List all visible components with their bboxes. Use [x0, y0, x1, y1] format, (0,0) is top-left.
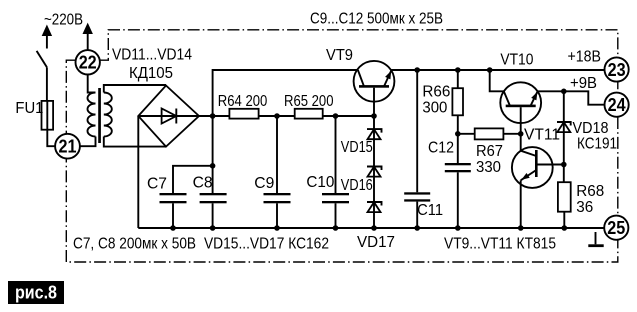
wire bridge plus to R64 — [199, 115, 229, 117]
capacitor C11 — [404, 70, 430, 228]
terminal 22 — [76, 50, 100, 74]
wire VT10 emitter to terminal 24 — [538, 91, 605, 104]
svg-text:КД105: КД105 — [129, 65, 173, 82]
zener chain wire — [373, 116, 375, 228]
mains arrow right — [83, 23, 93, 51]
capacitor C8 — [200, 193, 227, 203]
svg-text:VD18: VD18 — [573, 120, 609, 137]
svg-text:C7, C8 200мк x 50В: C7, C8 200мк x 50В — [73, 236, 196, 253]
wire R65 to VT9 base node — [323, 115, 374, 117]
zener diode VD15 — [367, 129, 382, 139]
svg-text:300: 300 — [422, 100, 447, 117]
wire bridge minus down to ground rail — [137, 116, 139, 228]
transistor VT10 — [490, 70, 541, 151]
module border (dash-dot) — [66, 30, 618, 262]
wire fuse to terminal 21 — [47, 130, 55, 147]
svg-text:КС191: КС191 — [577, 136, 617, 153]
svg-text:VD17: VD17 — [357, 234, 395, 251]
wire secondary top to bridge — [104, 85, 166, 93]
node R66 top — [455, 67, 461, 73]
terminal 23 — [605, 57, 629, 81]
resistor R65 — [295, 109, 323, 119]
resistor R66 — [452, 70, 463, 134]
capacitor C12 — [445, 134, 471, 228]
capacitor C10 — [322, 116, 349, 228]
svg-text:36: 36 — [576, 199, 593, 216]
svg-text:VD15...VD17 КС162: VD15...VD17 КС162 — [204, 236, 329, 253]
node C7 top link — [210, 163, 216, 169]
node R67/VT10 base — [518, 131, 524, 137]
ground rail wire — [138, 227, 604, 229]
svg-text:330: 330 — [476, 159, 501, 176]
transistor VT9 — [354, 61, 395, 116]
svg-text:R65 200: R65 200 — [284, 93, 334, 110]
svg-text:C8: C8 — [193, 175, 213, 192]
svg-text:21: 21 — [59, 137, 77, 157]
svg-text:R68: R68 — [576, 183, 604, 200]
node VD18 top — [561, 89, 567, 95]
transformer T1 core — [98, 88, 101, 143]
svg-text:R64 200: R64 200 — [218, 93, 268, 110]
svg-text:VT11: VT11 — [524, 127, 560, 144]
svg-text:22: 22 — [79, 53, 97, 73]
svg-text:VD16: VD16 — [341, 177, 373, 194]
svg-text:VD11...VD14: VD11...VD14 — [112, 47, 192, 64]
transformer T1 primary winding — [88, 93, 96, 137]
ground symbol — [588, 232, 603, 247]
node C10 tap — [333, 113, 339, 119]
svg-text:~220В: ~220В — [44, 12, 83, 29]
node VT9 base / zener chain — [371, 113, 377, 119]
capacitor C7 — [160, 166, 213, 228]
wire R64 to R65 — [259, 115, 295, 117]
svg-text:23: 23 — [608, 60, 626, 80]
capacitor C9 — [264, 116, 291, 228]
svg-text:рис.8: рис.8 — [15, 283, 57, 303]
bridge rectifier VD11-VD14 — [138, 86, 199, 147]
svg-text:25: 25 — [607, 218, 625, 238]
transformer T1 secondary winding — [104, 93, 112, 137]
svg-text:C7: C7 — [147, 176, 167, 193]
svg-text:C10: C10 — [306, 174, 334, 191]
zener diode VD16 — [367, 167, 382, 177]
figure caption plate — [8, 281, 64, 304]
terminal 24 — [605, 93, 629, 117]
resistor R67 — [458, 128, 521, 139]
svg-text:VT9...VT11 КТ815: VT9...VT11 КТ815 — [444, 236, 556, 253]
wire terminal 21 to primary — [80, 137, 96, 147]
svg-text:C9...C12 500мк x 25В: C9...C12 500мк x 25В — [310, 11, 443, 28]
node VT11 base / R68 top — [561, 162, 567, 168]
zener diode VD18 — [557, 91, 571, 133]
top rail VT9 emitter to terminal 23 — [392, 69, 605, 71]
mains arrow left — [42, 25, 52, 49]
svg-text:24: 24 — [608, 95, 626, 115]
svg-text:+9В: +9В — [570, 75, 597, 92]
transistor VT11 — [512, 147, 564, 228]
node C8 column — [210, 113, 216, 119]
fuse FU1 — [42, 101, 54, 130]
svg-text:R66: R66 — [422, 84, 450, 101]
node C11 tap — [414, 67, 420, 73]
resistor R68 — [558, 133, 571, 228]
zener diode VD17 — [367, 202, 382, 212]
node C9 tap — [274, 113, 280, 119]
wire terminal 22 to primary — [88, 75, 96, 93]
svg-text:FU1: FU1 — [15, 100, 43, 117]
resistor R64 — [229, 109, 258, 119]
svg-text:C11: C11 — [417, 202, 443, 219]
wire C8 column (top rail riser) — [213, 70, 358, 193]
terminal 21 — [55, 134, 80, 159]
node R66/R67/C12 — [455, 131, 461, 137]
svg-text:C9: C9 — [254, 175, 274, 192]
svg-text:R67: R67 — [476, 143, 503, 160]
terminal 25 — [604, 216, 628, 240]
node VT10 collector tap — [487, 67, 493, 73]
svg-text:VD15: VD15 — [341, 139, 373, 156]
svg-text:+18В: +18В — [568, 49, 602, 66]
svg-text:VT9: VT9 — [326, 47, 353, 64]
switch SA — [37, 51, 47, 101]
ground rail junction dots — [170, 225, 567, 231]
wire secondary bottom to bridge (crosses minus wire) — [104, 137, 166, 147]
svg-text:C12: C12 — [428, 140, 454, 157]
svg-text:VT10: VT10 — [500, 52, 533, 69]
